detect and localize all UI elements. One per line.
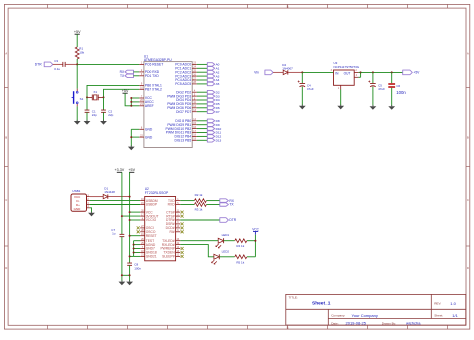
wire Vin to D2 <box>273 71 283 73</box>
no-connect OSCO <box>137 230 140 233</box>
svg-text:GND: GND <box>145 135 153 139</box>
port RX (FT232 side) <box>220 199 235 203</box>
port D3 <box>197 94 220 98</box>
wire C2 to ground <box>103 112 105 121</box>
resistor R2 1k <box>194 193 206 202</box>
no-connect DCD <box>181 226 184 229</box>
svg-text:D: D <box>5 266 7 270</box>
port A4 <box>197 78 220 82</box>
svg-text:+5V: +5V <box>128 168 135 172</box>
svg-text:C6: C6 <box>396 84 400 88</box>
svg-text:REV:: REV: <box>434 301 441 305</box>
svg-text:S1: S1 <box>80 97 84 101</box>
node VCC <box>130 97 132 99</box>
wire U3 GND to ground <box>340 90 342 106</box>
capacitor C4 47uF <box>298 81 314 92</box>
power flag +5V (AVCC) <box>122 89 129 93</box>
svg-text:+5V: +5V <box>413 71 420 75</box>
svg-text:wichcha: wichcha <box>406 321 421 326</box>
wire R5 to VCC node <box>247 241 255 257</box>
ground (U1) <box>128 145 135 150</box>
resistor R4 1k <box>235 239 247 248</box>
ground (S1) <box>74 120 81 125</box>
svg-text:1/1: 1/1 <box>452 313 458 318</box>
wire +3.3V rail <box>121 172 123 234</box>
svg-text:A5: A5 <box>216 82 220 86</box>
regulator U3 NCP1117ST50T3G <box>331 61 360 90</box>
port A1 <box>197 67 220 71</box>
svg-text:DIG13 PB5: DIG13 PB5 <box>175 139 192 143</box>
no-connect CTS <box>181 211 184 214</box>
svg-text:Date:: Date: <box>331 322 339 326</box>
node AGND <box>133 244 135 246</box>
node C4 <box>301 71 303 73</box>
svg-text:PC6 RESET: PC6 RESET <box>145 63 163 67</box>
resistor R1 <box>75 47 84 59</box>
node AREF <box>130 105 132 107</box>
svg-text:5: 5 <box>287 326 289 330</box>
svg-text:+3.3V: +3.3V <box>115 168 125 172</box>
wire +5V to U1 power pins <box>125 93 139 106</box>
port A3 <box>197 74 220 78</box>
svg-text:OUT: OUT <box>344 72 351 76</box>
ground (C4) <box>299 105 306 110</box>
port D9 <box>197 123 220 127</box>
capacitor C3 <box>54 59 65 71</box>
wire node to C5 <box>372 72 374 83</box>
svg-text:PC5 ADC5: PC5 ADC5 <box>175 82 191 86</box>
port D11 <box>197 131 222 135</box>
capacitor C2 <box>101 109 114 117</box>
wire R1 to node <box>76 59 78 64</box>
port D12 <box>197 135 222 139</box>
node crystal left <box>86 96 88 98</box>
wire node to C4 <box>301 72 303 83</box>
power flag +5V (USB section) <box>128 168 135 172</box>
resistor R5 1k <box>235 255 247 265</box>
svg-text:D13: D13 <box>216 139 222 143</box>
node bridge right <box>129 274 131 276</box>
wire C1 to ground <box>86 112 88 121</box>
power flag +5V (reset pull-up) <box>74 30 81 47</box>
port TX (to U1 PD1) <box>120 74 139 78</box>
svg-text:10k: 10k <box>79 50 84 54</box>
svg-text:D7: D7 <box>216 110 220 114</box>
node bridge left <box>121 274 123 276</box>
svg-text:R4 1k: R4 1k <box>236 244 244 248</box>
power flag +3.3V <box>115 168 125 172</box>
no-connect TXDEN <box>181 251 184 254</box>
wire USB GND to ground <box>90 208 92 213</box>
svg-text:A: A <box>467 52 469 56</box>
ground (+5V rail) <box>126 280 133 285</box>
node GND7 <box>133 248 135 250</box>
svg-text:C: C <box>467 198 469 202</box>
wire C8 to ground <box>129 265 131 281</box>
svg-text:FT232RLSSOP: FT232RLSSOP <box>145 191 169 195</box>
node reset junction <box>76 63 78 65</box>
wire R2 to RX port <box>207 200 220 202</box>
wire node to C6 <box>391 72 393 83</box>
svg-text:1u: 1u <box>112 232 116 236</box>
op-amp U1 ATMEGA328P-PU (MCU) <box>139 54 197 147</box>
svg-text:PB7 XTAL2: PB7 XTAL2 <box>145 88 162 92</box>
wire node to S1 <box>76 64 78 88</box>
svg-text:2019-08-25: 2019-08-25 <box>346 321 367 326</box>
ground (+3.3V rail) <box>119 280 126 285</box>
wire D1 to +5V rail <box>108 196 130 198</box>
svg-text:22p: 22p <box>92 113 97 117</box>
svg-text:C: C <box>5 198 7 202</box>
no-connect OSCI <box>137 226 140 229</box>
svg-text:100n: 100n <box>134 266 141 270</box>
svg-text:+5V: +5V <box>74 30 81 34</box>
svg-text:D: D <box>467 266 469 270</box>
node C6 <box>391 71 393 73</box>
ground (C6) <box>388 105 395 110</box>
svg-text:Your Company: Your Company <box>352 313 378 318</box>
diode D2 1N4007 <box>282 63 293 75</box>
wire U1 XTAL1 to crystal left <box>87 85 139 97</box>
port D13 <box>197 139 222 143</box>
port D8 <box>197 119 220 123</box>
svg-text:C3: C3 <box>54 59 58 63</box>
no-connect RTS <box>181 215 184 218</box>
svg-text:GND21: GND21 <box>146 255 157 259</box>
svg-text:PD1 TXD: PD1 TXD <box>145 74 159 78</box>
capacitor C8 100n <box>127 263 141 271</box>
svg-text:A: A <box>5 52 7 56</box>
port D5 <box>197 102 220 106</box>
op-amp U2 FT232RLSSOP (USB UART) <box>140 187 180 261</box>
svg-text:B: B <box>5 136 7 140</box>
svg-text:R2 1k: R2 1k <box>195 193 203 197</box>
wire rail bridge <box>122 274 130 276</box>
wire USB D+ to U2 USBDP <box>90 204 141 206</box>
svg-text:5: 5 <box>287 5 289 9</box>
svg-text:1.0: 1.0 <box>450 301 456 306</box>
wire LED2 to R5 <box>219 256 234 258</box>
port D10 <box>197 127 222 131</box>
node U3 OUT <box>360 71 362 73</box>
svg-text:R5 1k: R5 1k <box>236 261 244 265</box>
no-connect DSR <box>181 222 184 225</box>
svg-text:RESET: RESET <box>146 234 157 238</box>
wire R4 to VCC node <box>247 240 255 242</box>
LED LED2 <box>211 250 229 265</box>
node VCC/LED junction <box>254 240 256 242</box>
port D7 <box>197 110 220 114</box>
wire C4 to ground <box>301 87 303 106</box>
svg-text:AREF: AREF <box>145 104 154 108</box>
wire DTR to C3 <box>53 63 63 65</box>
svg-text:22p: 22p <box>108 113 113 117</box>
port D6 <box>197 106 220 110</box>
wire C5 to ground <box>372 87 374 107</box>
connector USB1 <box>71 189 90 212</box>
svg-text:LED2: LED2 <box>222 250 230 254</box>
svg-text:R3 1k: R3 1k <box>195 207 203 211</box>
node crystal right <box>103 96 105 98</box>
ground (C2) <box>100 120 107 125</box>
svg-text:TITLE:: TITLE: <box>289 296 298 300</box>
wire R3 to TX port <box>207 204 220 206</box>
node U2 VCCIO <box>129 219 131 221</box>
no-connect PWREN <box>181 247 184 250</box>
capacitor C7 1u <box>111 228 124 237</box>
wire U2 RXLED to LED2 <box>180 245 214 257</box>
port TX (FT232 side) <box>220 203 235 207</box>
port A5 <box>197 82 220 86</box>
svg-text:47uF: 47uF <box>378 87 385 91</box>
wire C3 to U1 PC6 RESET <box>65 63 139 65</box>
svg-text:RXD: RXD <box>168 203 176 207</box>
wire U2 TXD to R2 <box>180 200 194 202</box>
svg-text:RI#: RI# <box>169 230 174 234</box>
svg-text:+5V: +5V <box>122 89 129 93</box>
svg-text:USBDP: USBDP <box>146 203 158 207</box>
svg-text:X1: X1 <box>93 90 97 94</box>
resistor R3 1k <box>194 203 206 212</box>
wire crystal right to C2 <box>103 97 105 110</box>
svg-text:47uF: 47uF <box>307 87 314 91</box>
port Vin <box>254 70 273 75</box>
node U2 RESET <box>129 235 131 237</box>
svg-text:Sheet_1: Sheet_1 <box>312 301 331 307</box>
wire U1 GND pins to ground <box>131 129 139 146</box>
wire U2 DTR to DTR port <box>180 219 220 221</box>
svg-text:Company:: Company: <box>331 313 345 317</box>
wire +5V rail <box>129 172 131 263</box>
no-connect SLEEP <box>181 255 184 258</box>
wire U3 OUT pins joined <box>358 72 360 77</box>
svg-text:VCCIO: VCCIO <box>146 218 157 222</box>
wire C7 to ground <box>121 237 123 282</box>
svg-text:USB1: USB1 <box>72 189 80 193</box>
svg-text:1N4448: 1N4448 <box>104 190 115 194</box>
svg-text:B: B <box>467 136 469 140</box>
wire +3.3V rail to U2 3V3OUT <box>122 215 140 217</box>
wire D2 to U3 IN <box>288 71 334 73</box>
svg-text:Vin: Vin <box>254 71 259 75</box>
wire U2 ground bus <box>130 241 141 257</box>
wire U2 TXLED to LED1 <box>180 240 218 242</box>
ground (U3) <box>337 105 344 110</box>
power flag VCC <box>252 228 259 241</box>
node U2 VCC <box>129 211 131 213</box>
port A2 <box>197 70 220 74</box>
svg-text:1N4007: 1N4007 <box>282 67 293 71</box>
port DTR (FT232 side) <box>220 218 237 223</box>
capacitor C1 <box>85 109 98 117</box>
wire U1 XTAL2 to crystal right <box>104 89 140 97</box>
wire LED1 to R4 <box>224 240 235 242</box>
svg-text:DIG7 PD7: DIG7 PD7 <box>176 110 191 114</box>
port +5V (regulator output) <box>403 70 420 75</box>
crystal X1 <box>87 90 104 101</box>
svg-text:Drawn By:: Drawn By: <box>382 322 396 326</box>
capacitor C5 47uF <box>368 81 385 92</box>
wire U2 RXD to R3 <box>180 204 194 206</box>
node GND <box>130 136 132 138</box>
port DTR (reset) <box>35 62 53 67</box>
svg-text:VCC: VCC <box>252 228 259 232</box>
capacitor C6 100n <box>388 83 406 95</box>
port D2 <box>197 90 220 94</box>
port RX (to U1 PD0) <box>120 70 140 74</box>
node AVCC <box>130 101 132 103</box>
wire +5V output rail <box>361 71 403 73</box>
ground (C5) <box>370 105 377 110</box>
switch S1 <box>72 89 84 107</box>
ground (USB1) <box>88 212 95 217</box>
svg-text:100n: 100n <box>396 90 406 95</box>
svg-text:LED1: LED1 <box>222 233 230 237</box>
wire +5V rail to U2 VCCIO <box>130 219 141 221</box>
node C5 <box>372 71 374 73</box>
ground (C1) <box>84 120 91 125</box>
node U2 3V3OUT <box>121 215 123 217</box>
wire C6 to ground <box>391 88 393 106</box>
svg-text:SLEEP#: SLEEP# <box>162 255 175 259</box>
no-connect RI <box>181 230 184 233</box>
port D4 <box>197 98 220 102</box>
port A0 <box>197 63 220 67</box>
svg-text:DTR: DTR <box>35 63 42 67</box>
wire +5V rail to U2 RESET <box>130 235 141 237</box>
wire crystal left to C1 <box>86 97 88 110</box>
svg-text:GND: GND <box>145 128 153 132</box>
wire USB D- to U2 USBDM <box>90 200 141 202</box>
node D1/+5V rail <box>129 196 131 198</box>
LED LED1 <box>216 233 230 248</box>
svg-text:Sheet:: Sheet: <box>434 313 443 317</box>
wire S1 to ground <box>76 106 78 121</box>
diode D1 1N4448 <box>103 187 115 199</box>
svg-text:DTR: DTR <box>229 218 236 222</box>
node ground bus to rail <box>129 255 131 257</box>
node GND18 <box>133 252 135 254</box>
svg-text:0.1u: 0.1u <box>54 67 60 71</box>
wire +5V rail to U2 VCC <box>130 211 141 213</box>
svg-text:GND: GND <box>74 207 82 211</box>
title block <box>286 294 466 325</box>
wire USB VCC to D1 <box>90 196 104 198</box>
